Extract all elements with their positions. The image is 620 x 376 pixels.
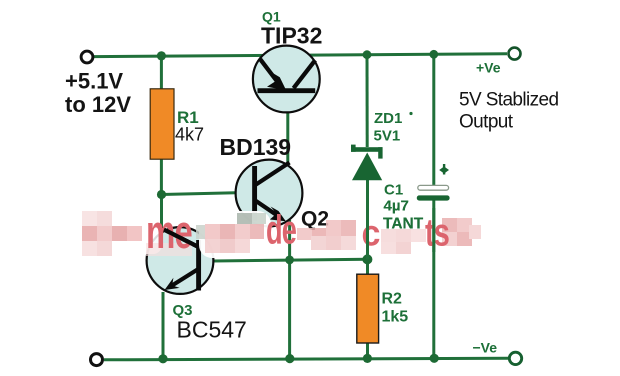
svg-text:c: c <box>362 212 381 254</box>
svg-text:BC547: BC547 <box>177 317 247 343</box>
svg-text:C1: C1 <box>384 182 403 199</box>
svg-text:5V1: 5V1 <box>374 128 401 145</box>
svg-text:R1: R1 <box>177 108 199 127</box>
svg-text:+5.1V: +5.1V <box>65 69 123 94</box>
svg-text:1k5: 1k5 <box>382 309 409 326</box>
svg-text:ZD1: ZD1 <box>374 110 402 127</box>
svg-text:ts: ts <box>425 211 449 254</box>
svg-text:BD139: BD139 <box>220 134 292 160</box>
svg-text:to 12V: to 12V <box>65 92 131 117</box>
svg-text:R2: R2 <box>382 291 403 308</box>
svg-text:Q1: Q1 <box>262 9 281 25</box>
svg-text:−Ve: −Ve <box>473 340 498 356</box>
svg-text:Q3: Q3 <box>173 302 193 319</box>
svg-text:4µ7: 4µ7 <box>384 198 409 215</box>
svg-text:5V Stablized: 5V Stablized <box>459 90 559 111</box>
svg-text:4k7: 4k7 <box>175 125 204 145</box>
svg-text:Output: Output <box>459 112 514 133</box>
svg-text:de: de <box>266 208 297 253</box>
svg-text:TIP32: TIP32 <box>261 23 322 49</box>
svg-text:+Ve: +Ve <box>476 60 501 76</box>
svg-text:Q2: Q2 <box>301 208 329 231</box>
svg-text:TANT: TANT <box>383 216 424 233</box>
